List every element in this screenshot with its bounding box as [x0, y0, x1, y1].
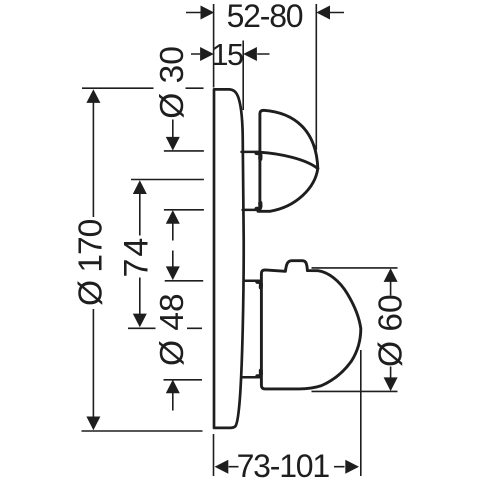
- extension line lower neck bottom for dia 48: [164, 379, 203, 381]
- dimension line dia 60 segments: [390, 281, 392, 379]
- dimension line dia 48 segments: [172, 251, 174, 411]
- arrowhead 52-80 right: [316, 6, 330, 20]
- extension line lower neck top for dia 48: [165, 280, 204, 282]
- upper knob neck top line: [242, 151, 259, 154]
- arrowhead 73-101 right: [345, 460, 359, 474]
- svg-text:Ø 30: Ø 30: [154, 46, 191, 119]
- extension line upper handle axis for 74: [131, 179, 204, 181]
- dimension line 15 tails: [191, 53, 270, 55]
- svg-text:52-80: 52-80: [227, 0, 303, 34]
- arrowhead 73-101 left: [215, 460, 229, 474]
- svg-text:Ø 48: Ø 48: [154, 293, 191, 366]
- arrowhead 74 bottom: [133, 314, 147, 328]
- lower neck fillet top: [257, 282, 261, 288]
- arrowhead dia 60 top: [384, 268, 398, 282]
- upper knob back line and dome outline: [258, 110, 318, 211]
- upper knob equator arc: [260, 152, 318, 168]
- extension line right of 73-101 at knob front: [360, 350, 362, 476]
- lower knob neck bottom line: [242, 376, 260, 379]
- extension line lower knob top for dia 60: [312, 267, 398, 269]
- dimension line dia 170 vertical segments: [92, 101, 94, 419]
- extension line lower knob bottom for dia 60: [312, 390, 398, 392]
- extension line right of 15 at plate front: [242, 41, 244, 111]
- dimension line 73-101 tails: [229, 466, 345, 468]
- dimension line 52-80 tails: [186, 12, 344, 14]
- arrowhead 15 right: [243, 47, 257, 61]
- arrowhead dia 30 bottom pointing up: [166, 210, 180, 224]
- upper neck fillet bottom: [257, 203, 261, 209]
- extension line left of 52-80 and 15 above plate: [213, 4, 215, 88]
- arrowhead dia 170 bottom: [86, 417, 100, 431]
- arrowhead dia 170 top: [86, 89, 100, 103]
- lower knob outline with top tab: [261, 261, 360, 389]
- upper neck fillet top: [257, 153, 261, 159]
- dimension line dia 30 segments: [172, 120, 174, 241]
- arrowhead dia 48 bottom pointing up: [166, 380, 180, 394]
- svg-text:Ø 170: Ø 170: [73, 219, 110, 306]
- svg-text:15: 15: [212, 38, 243, 72]
- extension line lower handle axis for 74: [128, 327, 202, 329]
- lower knob neck top line: [244, 280, 260, 283]
- extension line upper neck top for dia 30: [164, 150, 204, 152]
- extension line right of 52-80 at knob front: [315, 4, 317, 150]
- extension line bottom of plate for dia 170: [82, 430, 203, 432]
- arrowhead dia 30 top pointing down: [166, 137, 180, 151]
- svg-text:74: 74: [118, 236, 156, 278]
- arrowhead 15 left: [200, 47, 214, 61]
- lower neck fillet bottom: [257, 371, 261, 377]
- arrowhead dia 60 bottom: [384, 377, 398, 391]
- wall plate escutcheon outline: [214, 89, 244, 428]
- arrowhead 52-80 left: [201, 6, 215, 20]
- extension line upper neck bottom for dia 30: [164, 209, 204, 211]
- extension line top of plate for dia 170: [82, 87, 204, 89]
- svg-text:Ø 60: Ø 60: [373, 294, 410, 367]
- arrowhead 74 top: [133, 180, 147, 194]
- upper knob neck bottom line: [243, 209, 259, 212]
- extension line left of 73-101 below plate: [213, 434, 215, 476]
- svg-text:73-101: 73-101: [237, 448, 330, 480]
- arrowhead dia 48 top pointing down: [166, 266, 180, 280]
- dimension line 74 vertical segments: [139, 193, 141, 316]
